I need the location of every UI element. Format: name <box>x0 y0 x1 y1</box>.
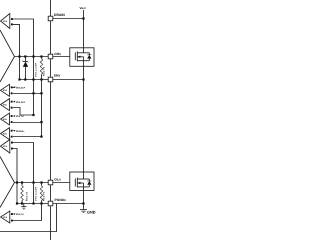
wire: T5 bottom input up to PGND rail <box>13 204 42 221</box>
wire: VGS clamp sense line LS <box>33 183 35 204</box>
pin GLx <box>48 180 53 185</box>
wire: T2 bottom input jog to bus B1 <box>13 108 34 116</box>
wire: VBAT vertical <box>83 10 85 48</box>
reference arrow T3 <box>13 115 15 117</box>
svg-text:VDS,OCP: VDS,OCP <box>16 87 26 90</box>
ground external symbol <box>83 204 85 210</box>
wire: T3 bottom input to bus B2 <box>13 122 42 124</box>
wire: SH rail left segment <box>20 79 49 81</box>
svg-text:GND: GND <box>87 211 96 215</box>
wire: T0L bottom input to GL <box>13 149 17 204</box>
svg-text:GLx: GLx <box>54 177 61 181</box>
comparator T5 VGS monitor bottom <box>1 211 10 223</box>
svg-text:VGS,TH: VGS,TH <box>16 213 24 216</box>
svg-text:VDS,TH: VDS,TH <box>16 115 24 118</box>
svg-text:VDS,OCP: VDS,OCP <box>16 101 26 104</box>
pin PGNDx <box>48 201 53 206</box>
resistor R3 RGS,PD low side <box>41 183 43 186</box>
svg-text:VPGNDx: VPGNDx <box>16 130 26 133</box>
wire: GL rail right to FET gate <box>53 182 75 184</box>
wire: T0 bottom input to SH <box>13 24 20 79</box>
svg-text:RGS,PD: RGS,PD <box>25 191 28 201</box>
wire: phase vertical <box>83 66 85 172</box>
reference arrow T4 <box>13 130 15 132</box>
wire: PGND rail left segment <box>17 203 48 205</box>
node dots on GL rail <box>16 181 43 183</box>
comparator T2 <box>1 99 10 111</box>
pin GHx <box>48 54 53 59</box>
reference arrow T1 <box>13 86 16 88</box>
svg-text:GHx: GHx <box>54 52 61 56</box>
reference arrow T5 <box>13 213 15 215</box>
wire: DRAIN rail to VBAT <box>53 18 84 20</box>
ground internal symbol <box>23 204 25 207</box>
wire: PGND rail right <box>53 203 84 205</box>
node: SH phase junction <box>82 78 84 80</box>
pin labels <box>54 6 96 215</box>
svg-text:RGS,PD: RGS,PD <box>43 191 46 201</box>
op-amp U1 high-side gate driver <box>0 30 15 82</box>
wire: T0 top input to GH <box>13 19 34 57</box>
comparator T0 VGS monitor HS <box>1 14 10 29</box>
transistor Q2 low-side MOSFET box <box>70 172 94 191</box>
svg-text:SHx: SHx <box>54 74 61 78</box>
svg-text:RGS,PD: RGS,PD <box>43 66 46 76</box>
wire: SH sense bus B2 <box>41 80 43 137</box>
wire: VGS clamp sense line <box>33 57 35 80</box>
comparator T0L VGS monitor LS <box>1 140 10 154</box>
comparator T3 <box>1 113 10 125</box>
zener D1 VGS clamp HS <box>25 57 27 62</box>
pin DRAIN <box>48 16 53 21</box>
node: VBAT-DRAIN junction <box>82 17 84 19</box>
wire: bottom sense wire to PGND <box>0 204 57 232</box>
comparator T1 VDS monitor <box>1 84 10 96</box>
comparator T4 <box>1 128 10 140</box>
node dots on PGND rail <box>16 202 43 204</box>
node dots on SH rail <box>18 78 42 80</box>
wire: LS source down to PGND <box>83 190 85 203</box>
reference arrow T2 <box>13 101 15 103</box>
wire: T1 bottom input to bus <box>13 93 42 95</box>
svg-text:VGS,CLAMP: VGS,CLAMP <box>35 186 38 201</box>
chip boundary line <box>50 0 52 240</box>
wire: T4 bottom input to bus B2 end <box>13 136 42 138</box>
wire: GH rail right to FET gate <box>53 56 76 58</box>
node: PGND junction <box>82 202 84 204</box>
wire: GL rail from driver to GLx pin <box>15 182 49 184</box>
resistor R1 RGS,PD high side <box>41 57 43 59</box>
wire: T0L top input to GL <box>13 143 34 183</box>
wire: SH rail right <box>53 79 84 81</box>
pin SHx <box>48 77 53 82</box>
svg-text:PGNDx: PGNDx <box>55 198 67 202</box>
svg-text:VGS,CLAMP: VGS,CLAMP <box>35 62 38 77</box>
node dots on GH rail <box>18 55 42 57</box>
wire: SH sense bus B1 <box>33 80 35 116</box>
svg-text:DRAIN: DRAIN <box>54 13 65 17</box>
wire: GH rail from driver to GHx pin <box>15 56 49 58</box>
resistor R2 low side left <box>21 183 23 186</box>
op-amp U2 low-side gate driver <box>0 157 15 208</box>
transistor Q1 high-side MOSFET box <box>70 48 94 67</box>
